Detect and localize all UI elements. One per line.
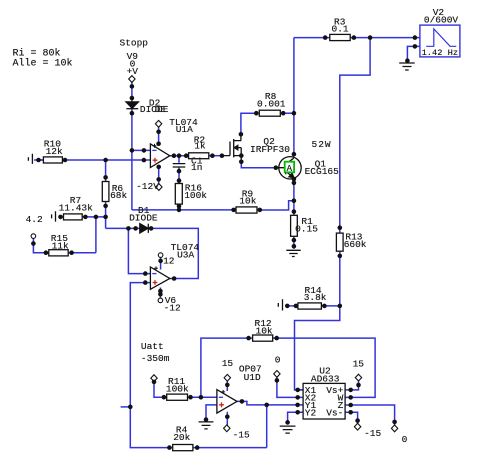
wire D1 node down to U3A - input xyxy=(128,228,150,273)
node dots R3 / V2 xyxy=(323,35,328,40)
node dots R13 xyxy=(338,225,343,230)
node dots D1 line xyxy=(126,226,131,231)
wire C1 top branch xyxy=(178,156,180,163)
svg-text:Stopp: Stopp xyxy=(120,37,149,48)
wire R14 right to R13 line xyxy=(321,305,339,307)
wire U2 Y2 to ground xyxy=(288,412,304,424)
ground at U1D + input xyxy=(199,422,214,429)
wire R3 left xyxy=(294,37,330,39)
svg-text:U3A: U3A xyxy=(177,249,194,260)
svg-text:68k: 68k xyxy=(110,190,127,201)
svg-text:12k: 12k xyxy=(46,146,63,157)
resistor R14 xyxy=(298,303,322,309)
U3A + mark xyxy=(153,280,158,285)
wire U1D + input to ground xyxy=(206,405,217,421)
wire R14 ground side xyxy=(285,305,298,307)
ground at U2 Y2 xyxy=(280,426,296,433)
resistor R8 xyxy=(259,110,280,116)
svg-text:-12: -12 xyxy=(164,302,181,313)
resistor R7 xyxy=(64,214,83,220)
wire U2 X1 stub xyxy=(295,389,304,391)
svg-text:ECG165: ECG165 xyxy=(305,166,340,177)
wire R16 bottom stub xyxy=(178,204,180,210)
wire R4 right xyxy=(193,447,267,449)
op-amp U1D xyxy=(217,390,237,414)
wire R12 left feedback down to U1D - input xyxy=(201,338,253,397)
U1D - mark xyxy=(219,396,223,398)
U1D + mark xyxy=(219,402,224,407)
resistor R11 xyxy=(167,394,188,400)
svg-text:52W: 52W xyxy=(312,139,332,150)
wire bottom line left vertical from U3A + input xyxy=(130,283,172,448)
connector U3A V- (V6) xyxy=(158,298,163,303)
wire D1 line left part xyxy=(106,227,140,229)
resistor R12 xyxy=(253,335,273,341)
connector 0 at U2 X2 xyxy=(274,371,280,378)
U3A power + mark xyxy=(154,266,158,270)
svg-text:0/600V: 0/600V xyxy=(424,15,459,26)
svg-text:10k: 10k xyxy=(256,325,273,336)
op-amp U1A xyxy=(150,144,169,168)
connector U1D V+ (15) xyxy=(224,374,230,381)
mosfet Q2 xyxy=(223,135,241,162)
svg-text:-15: -15 xyxy=(364,428,381,439)
U1D power + mark xyxy=(221,390,225,394)
svg-text:0: 0 xyxy=(275,355,281,366)
svg-text:11k: 11k xyxy=(52,240,69,251)
svg-text:20k: 20k xyxy=(173,432,190,443)
node dots R12 xyxy=(246,336,251,341)
resistor R6 xyxy=(102,182,109,202)
wire V9 to D2 anode xyxy=(131,81,133,102)
connector U1A V+ xyxy=(155,120,161,127)
ground at R10 xyxy=(28,154,32,164)
wire V2 lower terminal to ground xyxy=(407,46,420,61)
svg-text:U1A: U1A xyxy=(176,124,193,135)
wire U3A top power pin xyxy=(160,257,162,270)
wire U2 Vs- to -15 connector xyxy=(345,412,358,424)
multiplier U2 AD633 xyxy=(303,383,345,419)
svg-text:DIODE: DIODE xyxy=(129,213,158,224)
capacitor C1 xyxy=(173,164,186,167)
svg-text:100k: 100k xyxy=(166,383,189,394)
svg-text:+V: +V xyxy=(127,66,139,77)
wire Q2 source to Q1 base xyxy=(241,161,276,168)
wire R15 right xyxy=(68,252,96,254)
wire R1 bottom to ground xyxy=(293,236,295,248)
resistor R4 xyxy=(173,445,193,451)
wire U1A inverting input xyxy=(132,149,150,151)
connector U3A V+ (12) xyxy=(158,253,163,258)
svg-text:1.42 Hz: 1.42 Hz xyxy=(422,48,459,58)
node dots top chain xyxy=(130,84,135,89)
connector +V V9 xyxy=(129,76,135,83)
svg-text:15: 15 xyxy=(353,359,365,370)
wire U1D bottom power pin xyxy=(226,412,228,426)
connector R11 input (Uatt) xyxy=(151,375,157,382)
svg-text:-15: -15 xyxy=(233,430,250,441)
svg-text:12: 12 xyxy=(163,255,175,266)
svg-text:0: 0 xyxy=(402,434,408,445)
svg-text:Alle = 10k: Alle = 10k xyxy=(13,58,73,70)
wire U1D top power pin xyxy=(226,380,228,391)
svg-text:0.15: 0.15 xyxy=(295,224,318,235)
svg-text:11.43k: 11.43k xyxy=(59,203,94,214)
wire R8 left to Q2 drain xyxy=(241,113,256,134)
op-amp U3A xyxy=(150,267,169,289)
wire R10 ground stub xyxy=(34,159,43,161)
node dots U1D xyxy=(225,383,230,388)
wire R6 vertical bottom to D1 line xyxy=(105,202,107,229)
svg-text:A: A xyxy=(287,164,293,174)
node dots R7 line xyxy=(58,215,63,220)
resistor R13 xyxy=(336,233,343,251)
wire Q1 emitter down to R1 xyxy=(293,179,295,215)
resistor R3 xyxy=(330,34,350,40)
wire R7 line xyxy=(61,216,64,218)
node dots Q2 xyxy=(239,132,244,137)
svg-text:4.2: 4.2 xyxy=(26,214,43,225)
diode D2 xyxy=(126,102,138,108)
ground at R14 xyxy=(278,299,282,310)
svg-text:1n: 1n xyxy=(191,162,202,173)
node dots R10 line xyxy=(36,158,41,163)
wire R3 right to V2 xyxy=(350,37,420,39)
wire U1D output jog to U2 Y1 xyxy=(237,401,303,405)
node dots R11 xyxy=(152,380,157,385)
resistor R16 xyxy=(175,184,182,205)
resistor R2 xyxy=(189,153,209,159)
wire R13 bottom through R14 node down to X1 xyxy=(295,251,340,390)
wire U3A bottom power pin xyxy=(159,288,161,299)
connector 0 at U2 Z xyxy=(391,425,397,432)
U1A + mark xyxy=(153,158,158,163)
diode D1 xyxy=(140,224,148,233)
svg-text:100k: 100k xyxy=(184,190,207,201)
U1A - mark xyxy=(152,149,156,151)
node dots U1A output / C1 / R2 xyxy=(172,153,177,158)
wire R3 corner down to Q1 collector xyxy=(293,38,295,157)
wire R8 right to collector line xyxy=(284,112,294,114)
resistor R1 xyxy=(291,215,298,236)
svg-text:660k: 660k xyxy=(344,239,367,250)
wire D1 cathode to U3A output loop xyxy=(148,228,198,278)
resistor R9 xyxy=(236,207,257,213)
resistor R15 xyxy=(49,250,68,256)
connector U1A V- (-12V) xyxy=(156,184,162,191)
svg-text:3.8k: 3.8k xyxy=(304,292,327,303)
wire R6 vertical top xyxy=(105,160,107,182)
wire R11 right to U1D - input xyxy=(188,396,217,398)
svg-text:15: 15 xyxy=(222,358,234,369)
svg-text:Vs-: Vs- xyxy=(326,407,343,418)
U3A - mark xyxy=(152,273,156,275)
svg-text:IRFPF30: IRFPF30 xyxy=(250,144,290,155)
svg-text:AD633: AD633 xyxy=(311,373,340,384)
node dots R9 line xyxy=(231,208,236,213)
svg-text:Uatt: Uatt xyxy=(141,341,164,352)
wire R7 right to R6 node xyxy=(82,216,105,218)
svg-text:0.001: 0.001 xyxy=(257,98,286,109)
source V2 box xyxy=(420,25,460,57)
wire stub at bottom-left node xyxy=(121,406,131,408)
node dots R15 xyxy=(31,241,36,246)
connector R15 input xyxy=(31,234,36,239)
wire U1A output to R2 xyxy=(170,155,189,157)
svg-text:-12V: -12V xyxy=(136,181,159,192)
ammeter A box xyxy=(285,162,294,174)
wire R10 line to U1A + input xyxy=(39,159,151,161)
connector U1D V- (-15) xyxy=(224,425,230,432)
resistor R10 xyxy=(43,157,62,163)
connector -15 at U2 Vs- xyxy=(354,423,360,430)
wire R15 input from connector xyxy=(33,238,48,253)
ground below R1 xyxy=(286,250,300,256)
wire V2 top node down-jog to R13 xyxy=(340,38,370,234)
connector 15 at U2 Vs+ xyxy=(355,374,361,381)
svg-text:DE: DE xyxy=(155,104,167,115)
node dots U1A power pins xyxy=(156,130,161,135)
node dots bottom line xyxy=(128,405,133,410)
transistor Q1 xyxy=(279,157,301,179)
node dots U2 pins xyxy=(295,388,300,393)
wire R2 right to Q2 gate xyxy=(209,155,223,157)
wire R11 input from connector xyxy=(154,381,167,398)
svg-text:U1D: U1D xyxy=(244,372,261,383)
svg-text:10k: 10k xyxy=(239,196,256,207)
node dots Q1 xyxy=(274,165,279,170)
wire U1A bottom power pin xyxy=(158,166,160,185)
ground at R7 xyxy=(52,211,56,221)
svg-text:Y2: Y2 xyxy=(305,407,317,418)
wire U2 X2 from 0 connector xyxy=(277,376,303,397)
wire R9 right jog up to emitter node xyxy=(257,201,294,210)
wire R15 vertical up to R7 line xyxy=(95,217,97,253)
wire R16 bottom line to R9 left xyxy=(132,209,237,211)
svg-text:1k: 1k xyxy=(194,140,206,151)
node dots U3A xyxy=(172,276,177,281)
wire U1A top power pin xyxy=(158,126,160,146)
wire U1D output node down to R4 line xyxy=(266,405,268,448)
wire C1 bottom to R16 top xyxy=(178,168,180,184)
U1A power + mark xyxy=(153,144,157,148)
ground at V2 xyxy=(399,63,415,70)
svg-text:0.1: 0.1 xyxy=(332,23,349,34)
wire D2 cathode down to R16/R9 line corner xyxy=(131,109,133,210)
node dots R14 xyxy=(285,304,290,309)
wire U2 Vs+ to 15 connector xyxy=(345,380,358,390)
wire U2 Z to 0 connector xyxy=(345,405,395,426)
svg-text:-350m: -350m xyxy=(141,353,170,364)
wire R12 right to U2 W pin xyxy=(273,338,375,397)
